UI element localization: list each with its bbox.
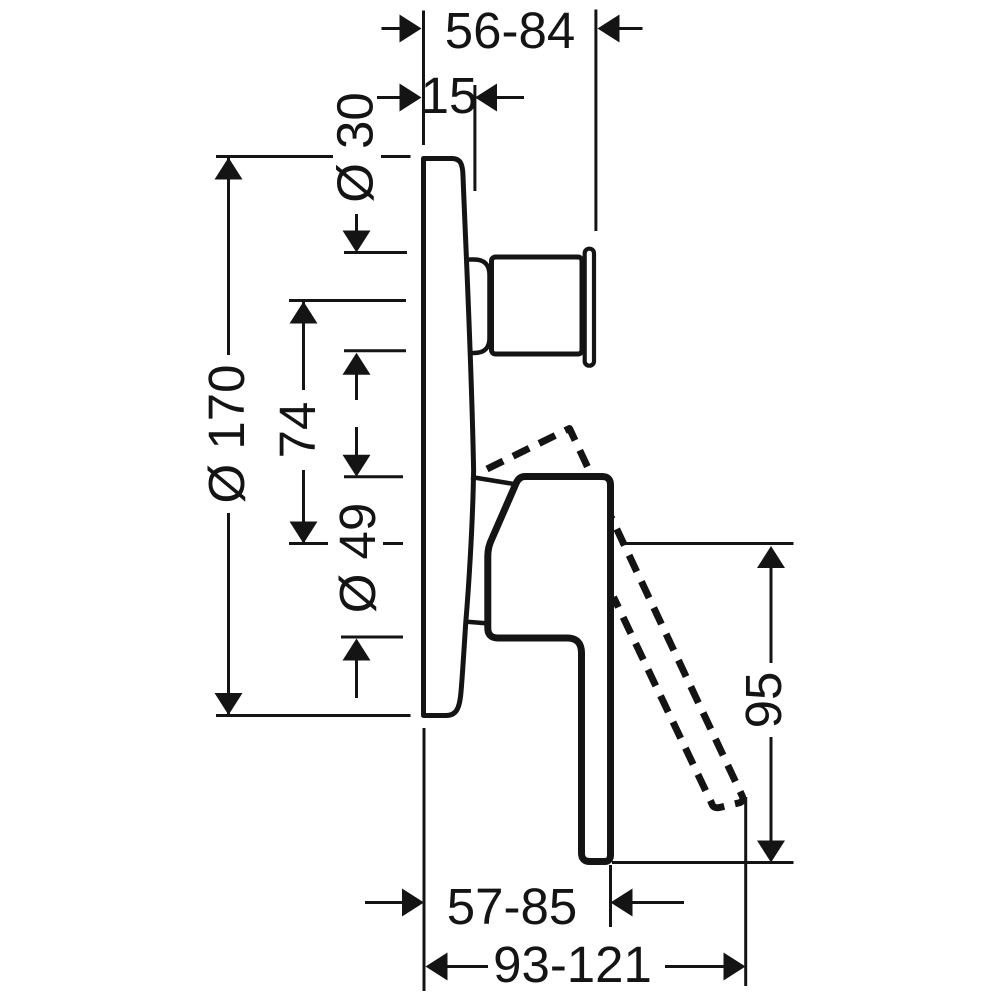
lever handle (solid, down position) xyxy=(488,477,611,862)
svg-text:56-84: 56-84 xyxy=(445,2,575,59)
dashed lever (alternate raised position) xyxy=(487,429,743,808)
extension line lever axis right (95 top) xyxy=(620,542,794,545)
extension line lever hub top (dia 49) xyxy=(344,475,403,478)
lever connector top xyxy=(471,477,517,485)
svg-text:Ø 30: Ø 30 xyxy=(327,92,384,203)
extension line cylinder bottom (dia 30) xyxy=(344,349,406,352)
wall plate (escutcheon, side view) xyxy=(424,159,474,716)
dimension 56-84 xyxy=(382,27,402,30)
cylinder knob body xyxy=(492,257,583,354)
extension line top of plate (dia 170 top) xyxy=(216,155,411,158)
dimension 93-121 xyxy=(426,953,448,981)
extension line cylinder top (dia 30) xyxy=(344,251,407,254)
svg-text:Ø 170: Ø 170 xyxy=(198,365,255,504)
dimension dia 49 xyxy=(355,427,358,455)
svg-text:57-85: 57-85 xyxy=(447,878,577,935)
extension line lever axis (74 bottom) xyxy=(289,542,403,545)
dimension 74 xyxy=(302,302,305,544)
svg-text:74: 74 xyxy=(269,402,326,459)
dimension 15 xyxy=(377,96,401,99)
reference line dashed lever tip (right of 93-121) xyxy=(744,797,747,986)
dimension 57-85 xyxy=(365,901,403,904)
svg-text:95: 95 xyxy=(735,672,792,729)
dimension dia 170 xyxy=(227,158,230,716)
reference line plate front (right of 15) xyxy=(473,85,476,191)
knob flange (between plate and cylinder) xyxy=(469,260,490,354)
dimension 95 xyxy=(757,546,785,568)
extension line bottom of plate (dia 170 bottom) xyxy=(216,714,411,717)
extension line blade bottom right (95 bottom) xyxy=(612,861,794,864)
reference line wall/plate top (left of 56-84 and 15) xyxy=(422,11,425,146)
dimension dia 30 xyxy=(355,214,358,231)
reference line blade right bottom (right of 57-85) xyxy=(609,865,612,927)
svg-text:Ø 49: Ø 49 xyxy=(329,503,386,614)
svg-text:15: 15 xyxy=(421,67,478,124)
svg-text:93-121: 93-121 xyxy=(493,936,652,993)
cylinder end cap xyxy=(585,249,594,366)
reference line wall bottom (left of 57-85, 93-121) xyxy=(423,728,426,991)
reference line cap front (right of 56-84) xyxy=(594,10,597,232)
extension line lever hub bottom (dia 49) xyxy=(341,636,403,639)
lever connector bottom xyxy=(464,622,489,624)
extension line cylinder axis (74 top) xyxy=(289,299,406,302)
